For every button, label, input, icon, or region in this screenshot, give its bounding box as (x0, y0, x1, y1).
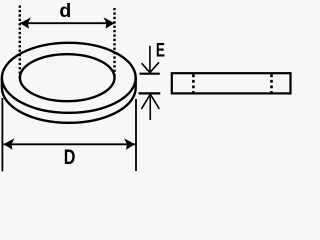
washer right side edge (134, 78, 136, 88)
dimension E top tick (140, 73, 160, 75)
dimension d right extension line (dotted) (113, 8, 115, 78)
dimension D left arrowhead (4, 138, 15, 149)
dimension d left extension line (dotted) (19, 6, 21, 79)
side view rectangle (172, 73, 291, 93)
svg-text:D: D (64, 146, 76, 170)
dimension D right extension line (135, 99, 137, 171)
dimension E bottom tick (139, 92, 161, 94)
washer left side edge (1, 78, 3, 88)
side view left dotted hole line (192, 74, 195, 92)
dimension D line (4, 143, 136, 145)
svg-text:d: d (59, 0, 71, 22)
dimension d line (20, 22, 115, 24)
dimension D right arrowhead (124, 138, 135, 149)
washer bottom face arc (2, 88, 136, 123)
dimension E down arrow shaft (149, 46, 151, 73)
svg-text:E: E (156, 39, 165, 61)
washer hole ellipse (20, 54, 115, 101)
dimension E up arrowhead (open) (141, 94, 159, 109)
side view right dotted hole line (270, 74, 273, 92)
washer outer ellipse (top face outer edge) (2, 43, 136, 113)
dimension D left extension line (1, 98, 3, 171)
dimension d right arrowhead (104, 17, 115, 28)
dimension d left arrowhead (20, 17, 31, 28)
dimension E down arrowhead (open) (142, 62, 159, 72)
dimension E up arrow shaft (149, 94, 151, 120)
